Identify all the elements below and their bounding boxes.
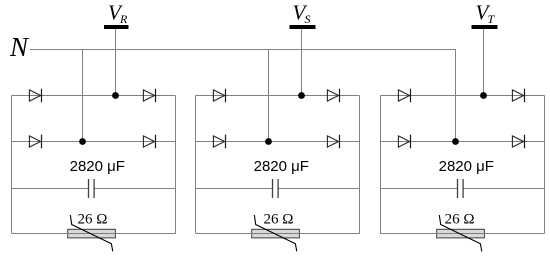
svg-text:R: R: [119, 12, 128, 26]
svg-text:26 Ω: 26 Ω: [445, 212, 475, 228]
svg-text:T: T: [488, 12, 496, 26]
svg-text:2820 μF: 2820 μF: [70, 158, 125, 175]
svg-text:N: N: [9, 32, 30, 62]
svg-text:26 Ω: 26 Ω: [263, 212, 293, 228]
svg-text:2820 μF: 2820 μF: [439, 158, 494, 175]
svg-text:2820 μF: 2820 μF: [254, 158, 309, 175]
svg-text:26 Ω: 26 Ω: [78, 212, 108, 228]
svg-text:S: S: [305, 12, 311, 26]
